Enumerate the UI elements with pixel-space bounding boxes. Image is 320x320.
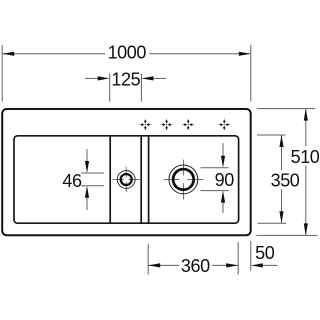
dim 360 extension line left [147, 244, 149, 275]
dim 1000 arrow right [239, 52, 251, 56]
dim 350 arrow bottom [279, 211, 283, 223]
dim 125 extension line right [140, 73, 142, 101]
svg-text:510: 510 [291, 147, 320, 167]
tap hole cross 2 [161, 119, 173, 131]
dim 125 arrow left outside [85, 77, 99, 79]
svg-text:50: 50 [255, 243, 275, 263]
dim 510 arrow top [304, 109, 308, 121]
dim 90 extension line top [201, 167, 229, 169]
dim 360/50 shared extension line [237, 242, 239, 275]
dim 510 extension line top [257, 108, 315, 110]
svg-text:350: 350 [271, 171, 300, 191]
svg-text:1000: 1000 [108, 43, 147, 63]
sink inner basin outline [14, 136, 239, 223]
dim 46 arrow top outside [86, 149, 88, 166]
small drain centerlines [113, 167, 140, 192]
partition line left (small bowl right edge) [140, 136, 142, 223]
main drain outer circle [169, 165, 198, 194]
svg-text:46: 46 [62, 171, 82, 191]
dim 360 arrow right [226, 263, 238, 267]
sink outer rim outline [2, 109, 251, 235]
dim 360 arrow left [148, 263, 160, 267]
dim 510 arrow bottom [304, 223, 308, 235]
dim 46 extension line bottom [81, 185, 104, 187]
dim 350 extension line top [257, 134, 286, 136]
dim 125 arrow right outside [153, 77, 167, 79]
dim 510 extension line bottom [256, 234, 317, 236]
tap hole cross 4 [218, 119, 230, 131]
small drain hole circle [121, 174, 132, 185]
dim 46 arrow bottom outside [86, 193, 88, 210]
main drain hole circle [173, 169, 194, 190]
tap hole cross 1 [139, 119, 151, 131]
dim 510 line [305, 109, 307, 146]
dim 1000 extension line left [1, 45, 3, 102]
partition line right (main bowl left edge) [148, 136, 150, 223]
dim 1000 line [3, 53, 105, 55]
svg-text:90: 90 [215, 170, 235, 190]
dim 50 arrow right outside [260, 264, 278, 266]
dim 360 line [148, 264, 179, 266]
dim 350 arrow top [279, 135, 283, 147]
dim 90 extension line bottom [201, 190, 229, 192]
svg-text:360: 360 [181, 256, 210, 276]
divider drainboard/small bowl [109, 136, 111, 223]
dim 350 line [281, 135, 283, 170]
dim 50 extension line right [250, 241, 252, 271]
dim 90 arrow bottom outside [222, 198, 224, 213]
dim 1000 arrow left [2, 52, 14, 56]
dim 350 extension line bottom [258, 222, 287, 224]
dim 125 extension line left [109, 73, 111, 101]
tap hole cross 3 [182, 119, 194, 131]
main drain centerlines [164, 160, 204, 200]
small drain outer circle [117, 171, 135, 189]
dim 46 extension line top [81, 172, 104, 174]
dim 90 arrow top outside [222, 143, 224, 160]
dim 1000 extension line right [250, 45, 252, 102]
svg-text:125: 125 [111, 69, 140, 89]
